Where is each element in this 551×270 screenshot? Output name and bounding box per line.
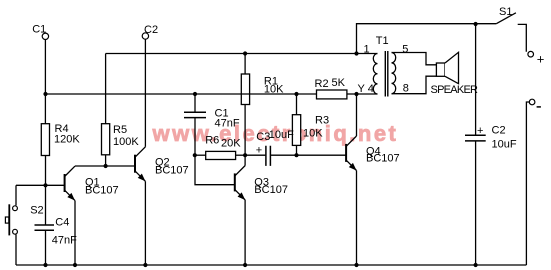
wire Y4 node to Q4 collector (356, 94, 358, 136)
svg-text:10uF: 10uF (269, 129, 294, 141)
capacitor C2 plates (465, 135, 486, 141)
output terminal minus (529, 99, 535, 105)
junction bus / C1-R4 (43, 92, 47, 96)
wire bus to C1 cap (194, 94, 196, 112)
svg-text:47nF: 47nF (52, 235, 77, 247)
speaker driver box (436, 63, 445, 76)
pushbutton S2 (5, 204, 17, 235)
transistor Q3 (235, 166, 245, 201)
junction R6 right / R1 / C3 (243, 153, 247, 157)
wire T1 secondary pin5 to speaker (392, 53, 437, 65)
wire Q1 collector to R5 node to Q2 base (75, 165, 135, 167)
wire node to C3 left plate (245, 154, 265, 156)
wire R3 node to Q4 base (297, 154, 347, 156)
wire top rail from T1 pin1 riser to S1 (357, 24, 497, 54)
switch S1 blade (496, 13, 516, 24)
wire S2 top contact (15, 185, 17, 205)
wire R3 bottom to node (296, 145, 298, 155)
wire T1 secondary pin8 to speaker (392, 76, 437, 94)
svg-text:C2: C2 (492, 125, 506, 137)
wire Q2 emitter to rail (144, 181, 146, 265)
wire R5 branch vertical (105, 54, 107, 124)
svg-text:+: + (537, 52, 545, 67)
wire C2 input to Q2 collector (144, 39, 146, 147)
transformer T1 secondary winding (392, 53, 396, 94)
wire R1 bottom to R6/C3 node (244, 105, 246, 156)
svg-text:1: 1 (364, 43, 370, 55)
wire bus to R3 top (296, 94, 298, 115)
svg-text:100K: 100K (113, 136, 139, 148)
wire C1 cap to Q3 base (195, 118, 235, 185)
svg-text:47nF: 47nF (215, 117, 240, 129)
junction rail / C4 (43, 263, 47, 267)
wire C3 right plate to R3 node (271, 154, 297, 156)
wire node to Q3 collector (244, 155, 246, 165)
svg-text:BC107: BC107 (366, 152, 400, 164)
svg-text:R5: R5 (113, 124, 127, 136)
wire Q1 emitter to rail (74, 201, 76, 265)
wire R5 bottom to node (105, 155, 107, 166)
svg-text:10K: 10K (264, 84, 284, 96)
wire R2 right to Y4 node (347, 93, 357, 95)
transistor Q1 (65, 166, 75, 201)
wire S1 to C2 cap vertical (475, 24, 477, 135)
capacitor C4 plates (35, 225, 55, 230)
svg-text:C4: C4 (55, 217, 69, 229)
junction rail / Q1 emitter (73, 263, 77, 267)
resistor R4 (41, 124, 49, 156)
svg-text:SPEAKER: SPEAKER (431, 84, 479, 96)
junction node Y4 (354, 92, 358, 96)
input terminal C2 (142, 33, 148, 39)
input terminal C1 (42, 33, 48, 39)
wire minus terminal down to rail (526, 102, 529, 265)
junction bus / R3 (294, 92, 298, 96)
resistor R6 (206, 151, 236, 159)
junction R3 bottom / C3 / Q4 base (294, 153, 298, 157)
svg-text:+: + (477, 125, 483, 137)
junction R6 left / C1 cap branch (193, 153, 197, 157)
svg-text:5: 5 (402, 43, 408, 55)
resistor R2 (317, 90, 347, 99)
wire S2 bottom contact to rail (15, 234, 17, 265)
resistor R1 (241, 74, 249, 105)
transformer T1 core (385, 51, 388, 97)
svg-text:R3: R3 (315, 114, 329, 126)
svg-text:BC107: BC107 (85, 185, 119, 197)
transistor Q2 (135, 147, 145, 182)
wire T1 pin Y4 lead (357, 93, 378, 95)
resistor R3 (292, 115, 300, 146)
svg-text:R2: R2 (315, 78, 329, 90)
svg-text:20K: 20K (221, 138, 241, 150)
junction top rail / C2 cap (474, 22, 478, 26)
wire Q4 emitter to rail (356, 171, 358, 266)
wire R6 left lead (195, 154, 206, 156)
junction bus / C1 cap (193, 92, 197, 96)
svg-text:Y 4: Y 4 (358, 83, 374, 95)
wire C1 input / R4 branch (44, 40, 46, 124)
svg-text:C1: C1 (32, 24, 46, 36)
wire supply net y=53.5 (106, 53, 357, 55)
svg-text:T1: T1 (376, 35, 389, 47)
svg-text:BC107: BC107 (254, 184, 288, 196)
svg-text:10uF: 10uF (492, 138, 517, 150)
wire Q3 emitter to rail (244, 200, 246, 265)
junction supply / T1 pin1 (354, 51, 358, 55)
svg-text:10K: 10K (303, 127, 323, 139)
wire R1 top lead (244, 54, 246, 75)
wire T1 pin1 lead (357, 53, 378, 55)
transformer T1 primary winding (373, 54, 377, 95)
junction rail / Q3 emitter (243, 263, 247, 267)
wire R4 bottom to C4 (45, 156, 47, 226)
svg-text:BC107: BC107 (155, 164, 189, 176)
svg-text:C2: C2 (144, 24, 158, 36)
junction rail / Q4 emitter (354, 263, 358, 267)
junction supply / R1 top (243, 51, 247, 55)
resistor R5 (102, 124, 110, 155)
svg-text:S1: S1 (499, 6, 512, 18)
output terminal plus (528, 51, 534, 57)
speaker cone (445, 52, 459, 83)
wire C4 bottom to ground rail (45, 230, 47, 265)
capacitor C3 plates (266, 146, 271, 166)
wire S1 right contact to plus terminal (518, 24, 527, 51)
wire bus net y=94 (46, 93, 317, 95)
junction rail / C2 cap (474, 263, 478, 267)
label minus terminal (537, 106, 541, 108)
wire R6 right lead (236, 154, 246, 156)
junction R5 / Q2 base (104, 164, 108, 168)
junction Q1 base / C4 (43, 183, 47, 187)
junction rail / Q2 emitter (143, 263, 147, 267)
svg-text:8: 8 (403, 83, 409, 95)
capacitor C1 plates (184, 112, 206, 117)
svg-text:+: + (256, 144, 262, 156)
svg-text:120K: 120K (54, 133, 80, 145)
wire ground rail (16, 264, 526, 266)
svg-text:5K: 5K (332, 77, 346, 89)
transistor Q4 (346, 136, 356, 171)
wire C2 cap bottom to rail (475, 141, 477, 265)
svg-text:R6: R6 (205, 134, 219, 146)
svg-text:S2: S2 (30, 204, 43, 216)
wire Q1 base net y=185.3 (16, 184, 65, 186)
